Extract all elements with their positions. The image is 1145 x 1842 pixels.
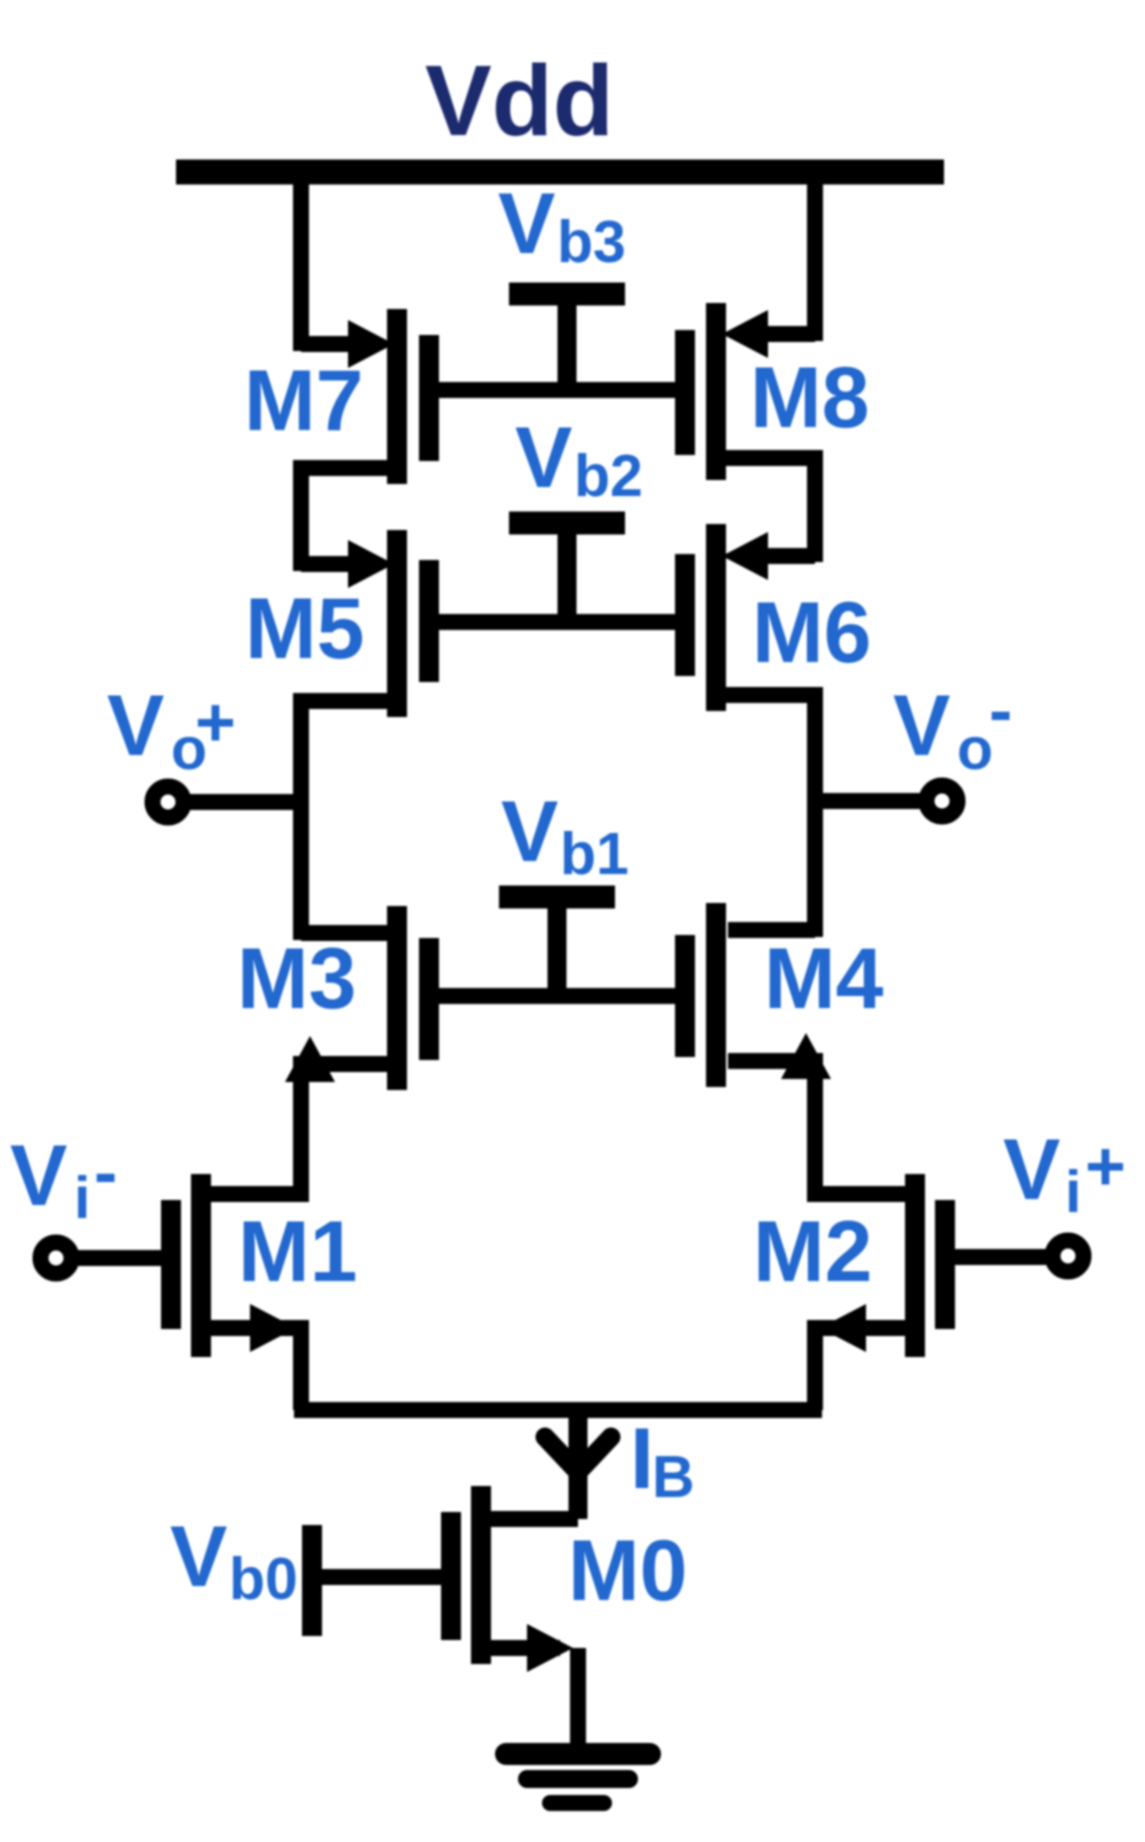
svg-text:b3: b3: [557, 209, 626, 275]
svg-text:M5: M5: [245, 581, 364, 677]
svg-text:V: V: [10, 1128, 67, 1224]
svg-text:V: V: [501, 784, 558, 880]
svg-text:V: V: [515, 410, 572, 506]
svg-text:V: V: [498, 176, 555, 272]
svg-text:M2: M2: [753, 1204, 872, 1300]
svg-text:i: i: [74, 1165, 90, 1231]
svg-text:+: +: [195, 683, 236, 761]
svg-text:V: V: [893, 678, 950, 774]
svg-text:M8: M8: [750, 350, 869, 446]
svg-text:M1: M1: [238, 1204, 357, 1300]
svg-text:b1: b1: [560, 821, 629, 887]
svg-text:i: i: [1065, 1159, 1081, 1225]
svg-text:o: o: [957, 716, 993, 782]
svg-text:Vdd: Vdd: [425, 45, 614, 157]
svg-text:M0: M0: [568, 1523, 687, 1619]
svg-text:I: I: [630, 1411, 654, 1507]
svg-text:V: V: [107, 678, 164, 774]
svg-text:M7: M7: [244, 353, 363, 449]
svg-text:M4: M4: [764, 931, 884, 1027]
svg-text:b2: b2: [574, 443, 643, 509]
svg-text:b0: b0: [229, 1546, 298, 1612]
svg-text:-: -: [94, 1133, 117, 1211]
svg-text:V: V: [1003, 1122, 1060, 1218]
svg-text:M6: M6: [752, 585, 871, 681]
svg-text:V: V: [170, 1509, 227, 1605]
svg-text:+: +: [1085, 1127, 1126, 1205]
svg-text:-: -: [989, 671, 1012, 749]
svg-text:B: B: [652, 1444, 695, 1510]
svg-text:M3: M3: [237, 931, 356, 1027]
